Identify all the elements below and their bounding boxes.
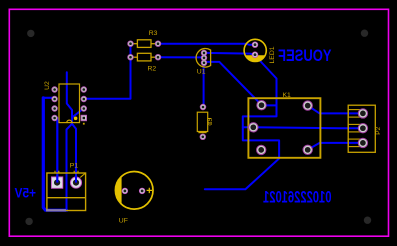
wire U1 bottom pad diagonal to K1 top-left pad	[205, 62, 262, 105]
svg-text:U2: U2	[44, 81, 51, 90]
LED LED1	[244, 39, 276, 63]
wire U1 top pad to LED1 bottom pad	[204, 53, 255, 55]
relay K1	[248, 92, 320, 158]
wire U2 right pad 3 diagonal	[72, 108, 84, 117]
svg-text:U1: U1	[197, 69, 206, 76]
svg-text:01022261021: 01022261021	[263, 187, 332, 206]
transistor U1	[196, 49, 211, 76]
wire K1 top-left pad stub	[262, 104, 277, 106]
wire R3 left to R2 left	[130, 44, 132, 58]
wire U2 left pad 4 down to P1 square pad	[56, 118, 58, 183]
svg-text:P2: P2	[375, 126, 382, 134]
svg-text:LED1: LED1	[269, 46, 276, 63]
capacitor C5	[197, 104, 214, 139]
wire U2 left pad 2 to P1 thick trace	[43, 97, 54, 99]
mounting hole top-left	[27, 30, 34, 37]
wire K1 top-right pad to P2 top pad	[308, 106, 363, 114]
svg-text:YOUSEF: YOUSEF	[278, 48, 331, 66]
svg-text:C5: C5	[208, 117, 214, 125]
wire branch to P1 round pad	[72, 124, 76, 183]
wire K1 bottom-right pad to P2 bottom pad	[308, 143, 363, 150]
wire overlap tint on P1 bottom edge	[46, 209, 66, 211]
wire stub above U2 through body down to P1 area	[67, 72, 73, 210]
wire thick power trace down left of P1	[43, 98, 66, 210]
mounting hole top-right	[361, 30, 368, 37]
resistor R2	[128, 53, 161, 72]
op-amp U2	[44, 81, 87, 125]
svg-text:P1: P1	[70, 162, 79, 169]
resistor R3	[128, 30, 161, 47]
mounting hole bottom-right	[364, 217, 371, 224]
mounting hole bottom-left	[25, 218, 32, 225]
wire LED1 bottom pad down to K1 area bracket	[205, 56, 279, 190]
connector P2	[348, 105, 382, 152]
svg-text:K1: K1	[283, 92, 292, 99]
wire bracket tap to K1 mid-left pad	[243, 126, 254, 128]
svg-text:R3: R3	[149, 30, 158, 37]
svg-text:R2: R2	[148, 66, 157, 73]
wire R3 to LED1 top pad	[158, 44, 255, 45]
connector P1	[47, 162, 86, 210]
wire R2 right to U1 middle pad	[158, 56, 204, 58]
capacitor UF	[115, 172, 153, 225]
wire R2 left down and to U2 pin	[84, 57, 131, 99]
wire U1 bottom pad to C5 top pad	[203, 63, 205, 107]
wire K1 mid-left pad to P2 middle pad	[253, 126, 363, 129]
svg-text:UF: UF	[119, 217, 128, 224]
svg-text:+5V: +5V	[14, 185, 36, 201]
